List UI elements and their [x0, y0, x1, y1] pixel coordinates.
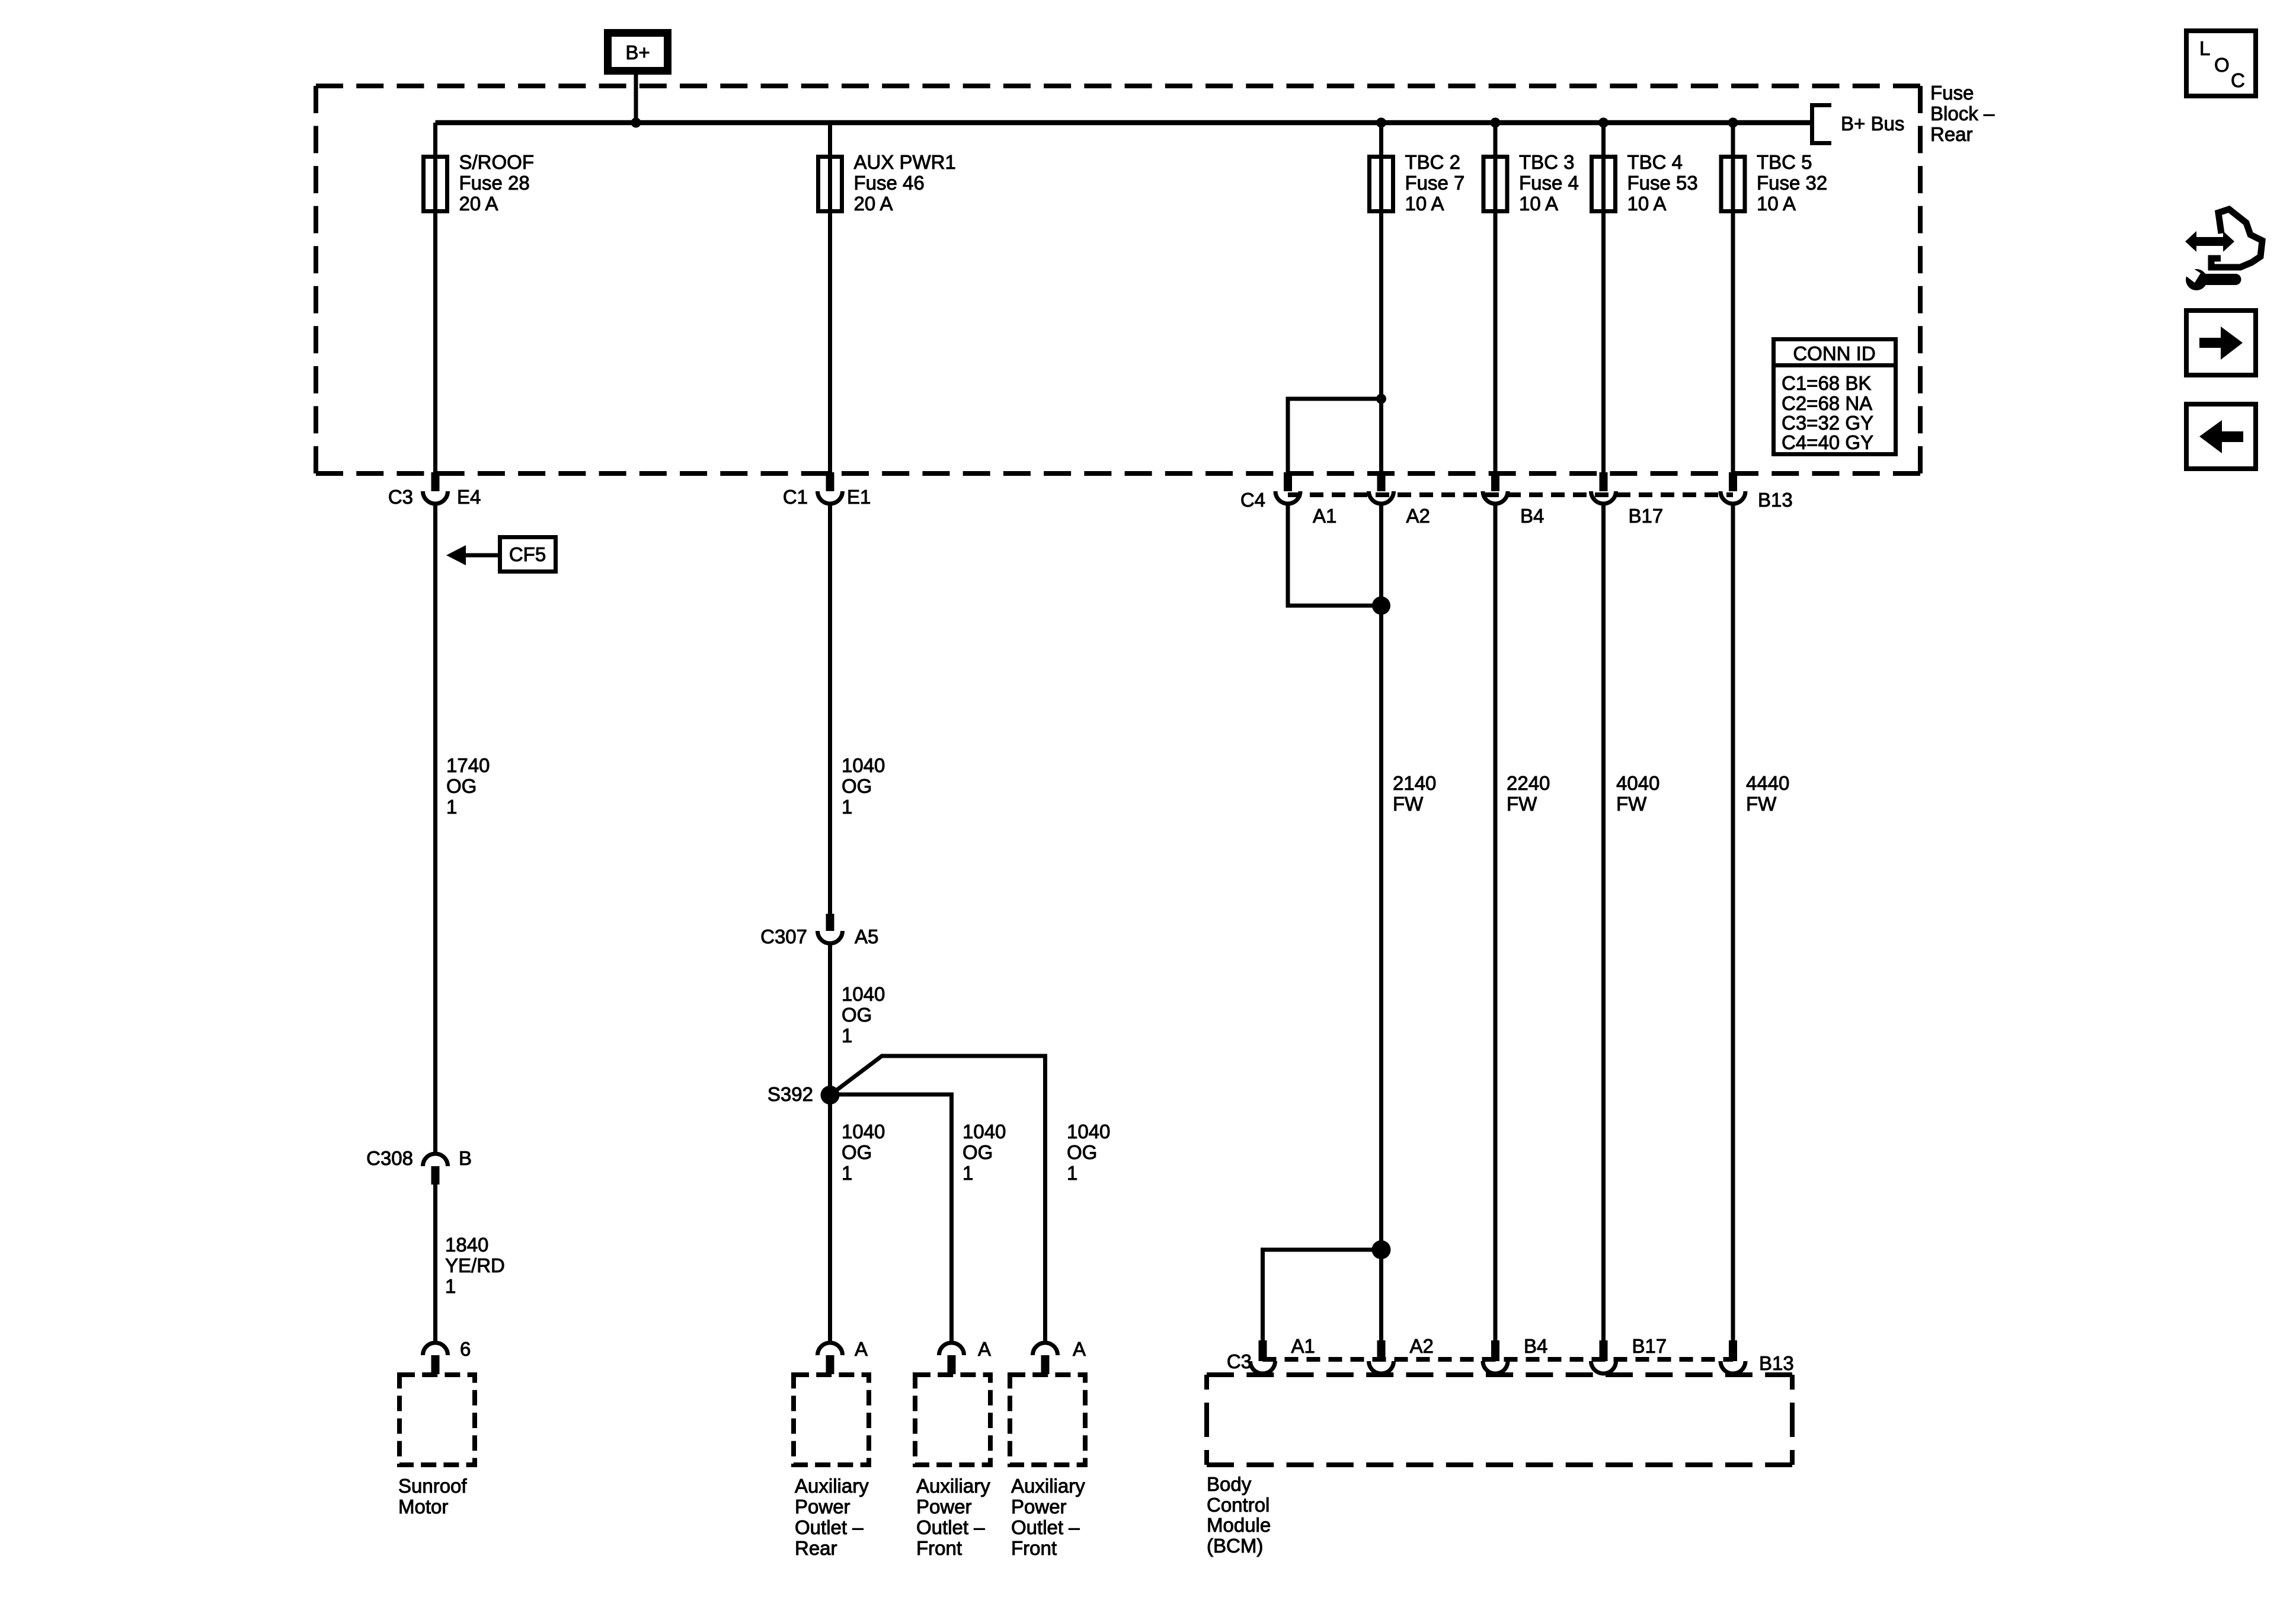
icon LOC box — [2186, 31, 2256, 96]
splice S392 — [768, 1083, 840, 1105]
Auxiliary Power Outlet Front label — [1011, 1475, 1085, 1559]
wire pin A1 down to junction — [1288, 504, 1382, 606]
wire 1040 OG segment (AUX PWR1) — [828, 504, 832, 916]
junction B+/bus — [631, 118, 641, 128]
svg-text:2140: 2140 — [1393, 772, 1436, 794]
svg-text:OG: OG — [842, 1004, 872, 1026]
svg-text:TBC 4: TBC 4 — [1627, 151, 1683, 173]
svg-text:AUX PWR1: AUX PWR1 — [854, 151, 956, 173]
svg-text:10 A: 10 A — [1519, 193, 1558, 215]
junction bus/TBC 3 — [1491, 118, 1501, 128]
icon wrench — [2185, 266, 2241, 290]
svg-text:B17: B17 — [1629, 505, 1664, 527]
svg-text:O: O — [2214, 54, 2230, 76]
connector C308 pin B — [366, 1147, 472, 1185]
bridge TBC2 wire to pin A1 — [1288, 399, 1382, 472]
svg-text:C2=68 NA: C2=68 NA — [1782, 392, 1872, 414]
connector C307 pin A5 — [760, 914, 878, 948]
Auxiliary Power Outlet Rear label — [795, 1475, 869, 1559]
wire bus through fuse TBC 5 to connector — [1731, 123, 1735, 474]
svg-text:Power: Power — [795, 1496, 850, 1518]
svg-text:OG: OG — [962, 1141, 993, 1163]
label wire 4440 FW — [1746, 772, 1789, 815]
Sunroof Motor label — [398, 1475, 467, 1518]
svg-text:10 A: 10 A — [1757, 193, 1796, 215]
svg-text:B4: B4 — [1520, 505, 1544, 527]
svg-text:Fuse 28: Fuse 28 — [459, 172, 530, 194]
wire 1840 YE/RD segment — [433, 1185, 437, 1343]
Fuse Block - Rear label — [1930, 82, 1995, 145]
label wire 2140 FW — [1393, 772, 1436, 815]
svg-text:10 A: 10 A — [1405, 193, 1444, 215]
svg-text:C1: C1 — [783, 486, 808, 508]
svg-text:Front: Front — [1011, 1537, 1057, 1559]
BCM connector pin B4 — [1483, 1335, 1547, 1374]
Body Control Module box — [1207, 1375, 1792, 1465]
Auxiliary Power Outlet Front label — [916, 1475, 990, 1559]
label wire 4040 FW — [1616, 772, 1659, 815]
CF5 callout box — [500, 537, 556, 572]
label wire 1040 OG 1 — [842, 754, 885, 818]
svg-text:B17: B17 — [1632, 1335, 1667, 1357]
svg-text:YE/RD: YE/RD — [445, 1254, 505, 1276]
labels 1040 OG 1 x3 — [842, 1121, 885, 1184]
svg-text:Auxiliary: Auxiliary — [916, 1475, 990, 1497]
svg-text:C3=32 GY: C3=32 GY — [1782, 412, 1873, 434]
svg-text:OG: OG — [1067, 1141, 1097, 1163]
svg-text:B: B — [459, 1147, 472, 1169]
wire C307 to S392 — [828, 943, 832, 1095]
connector C4 pin B17 — [1591, 472, 1664, 527]
svg-text:1040: 1040 — [962, 1121, 1006, 1142]
svg-text:1: 1 — [842, 1162, 852, 1184]
svg-text:Fuse 7: Fuse 7 — [1405, 172, 1465, 194]
svg-text:A1: A1 — [1291, 1335, 1315, 1357]
svg-text:E1: E1 — [847, 486, 871, 508]
Sunroof Motor box — [399, 1375, 475, 1465]
label wire 2240 FW — [1507, 772, 1550, 815]
svg-text:1: 1 — [962, 1162, 973, 1184]
fuse TBC 5 (Fuse 32 10 A) — [1721, 151, 1827, 215]
wire bus through fuse TBC 2 to connector — [1379, 123, 1383, 474]
svg-text:(BCM): (BCM) — [1207, 1535, 1263, 1557]
svg-text:C4=40 GY: C4=40 GY — [1782, 431, 1873, 453]
svg-text:Rear: Rear — [795, 1537, 837, 1559]
svg-text:1: 1 — [842, 796, 852, 818]
svg-text:C307: C307 — [760, 926, 807, 948]
wire 4440 FW segment — [1731, 504, 1735, 1343]
svg-text:FW: FW — [1746, 793, 1777, 815]
svg-text:Fuse 32: Fuse 32 — [1757, 172, 1827, 194]
svg-text:Front: Front — [916, 1537, 962, 1559]
junction bus/TBC 4 — [1598, 118, 1609, 128]
arrow to CF5 — [446, 545, 500, 565]
svg-text:A: A — [855, 1338, 868, 1360]
label wire 1040 OG 1 below C307 — [842, 983, 885, 1046]
connector C3 pin E4 (fuse block S/ROOF output) — [388, 472, 481, 508]
svg-text:FW: FW — [1393, 793, 1424, 815]
svg-text:1040: 1040 — [1067, 1121, 1110, 1142]
svg-text:20 A: 20 A — [459, 193, 498, 215]
CONN ID table — [1771, 340, 1898, 454]
svg-text:1: 1 — [1067, 1162, 1077, 1184]
Auxiliary Power Outlet Front box — [915, 1375, 990, 1465]
Body Control Module label — [1207, 1473, 1271, 1557]
BCM connector pin A1 — [1251, 1335, 1315, 1374]
label wire 1740 OG 1 — [446, 754, 490, 818]
icon forward arrow box — [2186, 311, 2256, 375]
connector aux power outlet 1 pin A — [818, 1338, 868, 1374]
junction A1/A2 tie — [1372, 597, 1390, 615]
svg-text:Fuse 46: Fuse 46 — [854, 172, 925, 194]
connector C4 pin A1 — [1275, 472, 1336, 527]
wire 2140 FW segment — [1379, 504, 1383, 1343]
BCM connector pin A2 — [1369, 1335, 1434, 1374]
svg-text:Block –: Block – — [1930, 103, 1995, 124]
svg-text:1740: 1740 — [446, 754, 490, 776]
connector C4 5-pin dotted line — [1288, 492, 1733, 497]
svg-text:L: L — [2199, 37, 2210, 59]
svg-text:Auxiliary: Auxiliary — [795, 1475, 869, 1497]
connector C4 pin B13 — [1721, 472, 1793, 511]
icon vehicle outline — [2211, 209, 2262, 267]
svg-text:1040: 1040 — [842, 1121, 885, 1142]
svg-text:B13: B13 — [1759, 1352, 1794, 1374]
svg-text:FW: FW — [1507, 793, 1537, 815]
connector aux power outlet 3 pin A — [1033, 1338, 1086, 1374]
svg-text:B13: B13 — [1758, 489, 1793, 511]
B+ Bus terminal bracket — [1812, 105, 1905, 143]
svg-text:CONN ID: CONN ID — [1793, 343, 1875, 364]
junction BCM A1/A2 tie — [1372, 1240, 1391, 1259]
svg-text:4040: 4040 — [1616, 772, 1659, 794]
svg-text:A2: A2 — [1410, 1335, 1434, 1357]
svg-text:C: C — [2231, 69, 2245, 91]
svg-text:Control: Control — [1207, 1494, 1269, 1516]
wire 4040 FW segment — [1601, 504, 1606, 1343]
svg-text:Module: Module — [1207, 1514, 1271, 1536]
connector C4 pin B4 — [1483, 472, 1544, 527]
B+ bus wire — [436, 120, 1812, 126]
svg-text:Fuse 53: Fuse 53 — [1627, 172, 1698, 194]
icon vehicle data double-arrow — [2185, 231, 2234, 252]
svg-text:A1: A1 — [1313, 505, 1336, 527]
svg-text:CF5: CF5 — [509, 543, 546, 565]
junction TBC2/A1 bridge — [1376, 394, 1386, 404]
svg-text:Rear: Rear — [1930, 123, 1973, 145]
connector C1 pin E1 (fuse block AUX PWR1 output) — [783, 472, 871, 508]
connector aux power outlet 2 pin A — [939, 1338, 992, 1374]
svg-text:E4: E4 — [457, 486, 481, 508]
wire S392 to outlet rear — [828, 1095, 832, 1343]
svg-text:1: 1 — [445, 1275, 456, 1297]
label wire 1840 YE/RD 1 — [445, 1234, 505, 1297]
svg-text:6: 6 — [460, 1338, 471, 1360]
Auxiliary Power Outlet Rear box — [794, 1375, 869, 1465]
svg-text:C3: C3 — [1227, 1350, 1252, 1372]
svg-text:Fuse: Fuse — [1930, 82, 1974, 104]
connector C4 pin A2 — [1369, 472, 1430, 527]
svg-text:1040: 1040 — [842, 983, 885, 1005]
svg-text:Outlet –: Outlet – — [916, 1516, 985, 1538]
Auxiliary Power Outlet Front box — [1010, 1375, 1085, 1465]
svg-text:B+ Bus: B+ Bus — [1841, 113, 1904, 135]
fuse block dashed outline — [316, 86, 1920, 473]
svg-text:Fuse 4: Fuse 4 — [1519, 172, 1579, 194]
fuse TBC 3 (Fuse 4 10 A) — [1483, 151, 1579, 215]
svg-text:2240: 2240 — [1507, 772, 1550, 794]
svg-text:A5: A5 — [855, 926, 878, 948]
BCM connector pin B13 — [1721, 1340, 1794, 1374]
fuse TBC 2 (Fuse 7 10 A) — [1370, 151, 1465, 215]
svg-text:OG: OG — [446, 775, 477, 797]
svg-text:C1=68 BK: C1=68 BK — [1782, 372, 1871, 394]
wire 2240 FW segment — [1494, 504, 1498, 1343]
B+ power symbol — [608, 33, 668, 71]
wire bus through fuse TBC 4 to connector — [1601, 123, 1606, 474]
BCM connector C3 dotted line — [1263, 1357, 1734, 1362]
icon back arrow box — [2186, 404, 2256, 469]
svg-text:Auxiliary: Auxiliary — [1011, 1475, 1085, 1497]
svg-text:Outlet –: Outlet – — [795, 1516, 864, 1538]
svg-text:A2: A2 — [1406, 505, 1430, 527]
svg-text:C4: C4 — [1240, 489, 1265, 511]
wire bus through fuse S/ROOF to connector — [433, 123, 437, 474]
svg-text:B4: B4 — [1524, 1335, 1547, 1357]
svg-text:OG: OG — [842, 775, 872, 797]
svg-text:Motor: Motor — [398, 1496, 448, 1518]
bridge wire to BCM pin A1 — [1263, 1250, 1382, 1340]
fuse S/ROOF (Fuse 28 20 A) — [424, 151, 535, 215]
wire bus through fuse TBC 3 to connector — [1494, 123, 1498, 474]
svg-text:TBC 3: TBC 3 — [1519, 151, 1575, 173]
junction bus/TBC 2 — [1376, 118, 1386, 128]
svg-text:1: 1 — [842, 1025, 852, 1046]
svg-text:C308: C308 — [366, 1147, 413, 1169]
svg-text:S392: S392 — [768, 1083, 813, 1105]
junction bus/TBC 5 — [1728, 118, 1738, 128]
wire bus through fuse AUX PWR1 to connector — [828, 123, 832, 474]
svg-text:1: 1 — [446, 796, 457, 818]
svg-text:C3: C3 — [388, 486, 413, 508]
fuse TBC 4 (Fuse 53 10 A) — [1592, 151, 1698, 215]
svg-text:1040: 1040 — [842, 754, 885, 776]
svg-text:A: A — [1073, 1338, 1086, 1360]
svg-text:20 A: 20 A — [854, 193, 893, 215]
svg-text:Body: Body — [1207, 1473, 1252, 1495]
svg-text:S/ROOF: S/ROOF — [459, 151, 535, 173]
svg-text:10 A: 10 A — [1627, 193, 1667, 215]
svg-text:OG: OG — [842, 1141, 872, 1163]
svg-text:A: A — [978, 1338, 991, 1360]
wire S392 branch to outlet front 2 — [830, 1056, 1045, 1343]
wire S392 branch to outlet front 1 — [830, 1094, 952, 1343]
svg-text:Power: Power — [916, 1496, 972, 1518]
BCM connector pin B17 — [1591, 1335, 1667, 1374]
svg-text:4440: 4440 — [1746, 772, 1789, 794]
svg-text:1840: 1840 — [445, 1234, 488, 1256]
svg-text:Outlet –: Outlet – — [1011, 1516, 1080, 1538]
wire B+ to bus — [634, 75, 638, 123]
connector sunroof motor pin 6 — [423, 1338, 471, 1374]
svg-text:TBC 5: TBC 5 — [1757, 151, 1812, 173]
svg-text:Power: Power — [1011, 1496, 1067, 1518]
svg-text:FW: FW — [1616, 793, 1647, 815]
wire 1740 OG segment — [433, 504, 437, 1155]
svg-text:TBC 2: TBC 2 — [1405, 151, 1461, 173]
svg-text:B+: B+ — [625, 41, 650, 63]
svg-text:Sunroof: Sunroof — [398, 1475, 467, 1497]
fuse AUX PWR1 (Fuse 46 20 A) — [818, 151, 956, 215]
